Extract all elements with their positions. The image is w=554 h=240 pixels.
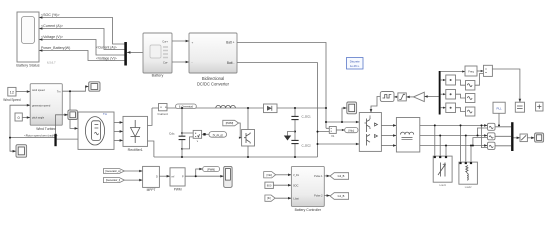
freq measurement block	[465, 66, 477, 76]
capacitor Cdc	[181, 108, 183, 157]
ground midpoint	[288, 132, 296, 136]
svg-text:Tm: Tm	[103, 112, 108, 116]
wire PWM generator to inverter gate	[371, 97, 380, 113]
goto tag I_Generator	[176, 104, 197, 109]
svg-text:<Current (A)>: <Current (A)>	[41, 24, 63, 28]
wire V2 to goto tag	[202, 133, 209, 135]
diode D1 on rail	[264, 104, 278, 113]
goto tag G2_B	[330, 173, 349, 180]
subsystem Wind Turbine	[30, 84, 62, 126]
PWM generator block	[380, 92, 394, 102]
scope three-phase	[535, 133, 544, 142]
display block	[515, 102, 524, 112]
wire V1 to goto tag Vdc	[336, 129, 345, 131]
svg-text:Pulse 1: Pulse 1	[314, 175, 323, 178]
svg-text:Cdc: Cdc	[169, 132, 175, 136]
svg-text:Battery: Battery	[152, 74, 164, 78]
svg-text:[Generator_I]: [Generator_I]	[106, 179, 120, 182]
wire machine phase C to rectifier	[114, 139, 123, 141]
junction dots top rail	[325, 107, 327, 109]
wire controller pulse2 to goto	[324, 195, 330, 197]
goto tag PWM	[203, 166, 220, 171]
wire bar1 stub row3	[441, 107, 446, 109]
svg-text:Wind Turbine: Wind Turbine	[36, 127, 56, 131]
IGBT switch block	[242, 130, 255, 147]
wire bar2 to rate block	[514, 137, 521, 139]
wire top DC rail	[152, 107, 326, 109]
svg-text:[Generator_w]: [Generator_w]	[105, 170, 120, 173]
wire rotor speed to scope	[10, 138, 16, 152]
svg-text:<Rotor speed wm (rad/s)>: <Rotor speed wm (rad/s)>	[24, 133, 58, 137]
svg-text:I_bat: I_bat	[293, 197, 299, 200]
wire IGBT bottom riser	[247, 146, 249, 157]
measurement block Vab	[488, 123, 496, 130]
MPPT block	[143, 166, 160, 187]
svg-text:800: 800	[267, 184, 272, 188]
from tag Ib	[265, 195, 275, 201]
PLL block	[493, 102, 505, 113]
svg-text:Current: Current	[158, 112, 168, 116]
svg-text:Battery Controller: Battery Controller	[295, 208, 322, 212]
wire row2 to RMS2	[456, 94, 466, 98]
wire inverter phase B	[381, 135, 396, 137]
wire row3 to RMS3	[456, 108, 466, 112]
wire bar1 stub row2	[441, 93, 446, 95]
svg-text:Discrete: Discrete	[350, 60, 360, 64]
svg-text:PLL: PLL	[497, 106, 503, 110]
wire phase line C	[420, 145, 488, 147]
svg-text:SOC: SOC	[293, 184, 299, 187]
wire to controller input2	[273, 184, 291, 186]
battery block	[143, 33, 172, 73]
constant Wind Speed 12	[8, 87, 16, 96]
svg-text:C_DC1: C_DC1	[302, 114, 312, 118]
wire Voltage from bus selector to Battery Status	[39, 40, 125, 56]
wire DC minus bus to inverter	[318, 143, 360, 145]
svg-text:Rectifier1: Rectifier1	[128, 148, 143, 152]
bus bar output measurements	[511, 122, 513, 151]
bus bar measurement mux	[439, 71, 441, 115]
wire machine phase A to rectifier	[114, 121, 123, 123]
rectifier block	[123, 116, 148, 146]
svg-text:-: -	[192, 60, 193, 64]
wire PWM to scope and goto	[185, 175, 224, 177]
svg-text:[Ib]: [Ib]	[267, 197, 271, 200]
svg-text:6,5,6,7: 6,5,6,7	[47, 61, 56, 65]
gain block flipped	[414, 92, 425, 101]
scope Battery Status block	[17, 12, 39, 62]
svg-text:Wind Speed: Wind Speed	[3, 98, 21, 102]
svg-text:[PWM]: [PWM]	[207, 168, 215, 171]
wire controller pulse1 to goto	[324, 175, 330, 177]
RMS block 2	[466, 94, 475, 103]
capacitor C_DC2	[291, 140, 298, 143]
svg-text:<Current (A)>: <Current (A)>	[96, 45, 117, 49]
wire DC plus bus to inverter	[326, 121, 359, 123]
svg-text:generator speed: generator speed	[32, 104, 51, 107]
wire battery m to bus selector	[127, 51, 143, 53]
svg-text:Batt +: Batt +	[226, 41, 235, 45]
wire Vab second input	[478, 128, 488, 136]
svg-text:DC/DC Converter: DC/DC Converter	[197, 82, 230, 87]
wire to controller input3	[275, 197, 291, 199]
wire machine phase B to rectifier	[114, 130, 123, 132]
wire wind speed to turbine	[16, 91, 30, 93]
svg-text:12: 12	[10, 90, 15, 95]
svg-text:Freq: Freq	[468, 70, 474, 74]
wire battery minus to converter	[172, 61, 189, 63]
svg-text:[PWM]: [PWM]	[226, 122, 234, 125]
current measurement block on DC rail	[159, 104, 168, 111]
wire bottom DC rail	[154, 156, 318, 158]
svg-text:wind speed: wind speed	[32, 89, 45, 92]
svg-text:D: D	[156, 175, 158, 178]
wire tag to MPPT input1	[124, 170, 142, 172]
wire gate to IGBT	[239, 123, 242, 138]
inductor L boost	[216, 105, 236, 108]
constant pitch angle 0	[15, 113, 22, 121]
svg-text:[Vdc]: [Vdc]	[348, 130, 354, 133]
wire Vca second input	[482, 125, 488, 147]
wire bar1 to freq block	[441, 71, 465, 73]
from tag Generator_I	[103, 178, 124, 183]
wire to scope3ph	[527, 137, 534, 139]
svg-text:Load2: Load2	[465, 186, 472, 189]
wire bar1 stub row1	[441, 79, 446, 81]
wire rotor speed feedback	[10, 105, 55, 137]
svg-text:Power_Battery(W): Power_Battery(W)	[41, 46, 70, 50]
measurement block Vbc	[488, 133, 496, 140]
wire tag to MPPT input2	[124, 179, 142, 181]
scope Vdc	[347, 102, 357, 114]
voltage measurement V1 DC bus	[318, 128, 330, 131]
wire battery plus to converter	[172, 40, 189, 42]
svg-text:Tm: Tm	[57, 91, 61, 94]
wire Current from bus selector to Battery Status	[39, 29, 125, 50]
scope wind speed bottom left	[16, 145, 27, 158]
svg-text:G2_B: G2_B	[338, 174, 345, 178]
wire Vbc second input	[473, 138, 488, 146]
load2 series RLC load	[459, 162, 478, 184]
wire scope Vdc riser	[342, 108, 347, 122]
from tag Vdc controller	[264, 172, 276, 178]
wire gain to saturation	[406, 96, 413, 98]
wire rectifier plus to DC rail	[148, 108, 153, 125]
voltage measurement V2 across Cdc	[182, 133, 193, 149]
wire row1 to RMS1	[456, 80, 466, 85]
wire drops to load1	[435, 125, 446, 156]
svg-text:<Voltage (V)>: <Voltage (V)>	[96, 56, 117, 60]
machine PMSG block	[78, 112, 114, 149]
svg-text:C_DC2: C_DC2	[302, 144, 312, 148]
svg-text:[V_dc_g]: [V_dc_g]	[213, 134, 223, 137]
wire freq to PQ block	[477, 70, 484, 72]
terminator block far right	[536, 102, 543, 111]
svg-text:Load1: Load1	[439, 184, 446, 187]
svg-text:Cur+: Cur+	[162, 39, 168, 43]
wire inverter phase A	[381, 124, 396, 126]
svg-text:1e-06 s.: 1e-06 s.	[350, 64, 360, 68]
PQ measurement block	[484, 65, 493, 76]
capacitor C_DC1	[294, 108, 296, 157]
wire inverter phase C	[381, 145, 396, 147]
RMS block 1	[466, 81, 475, 91]
LC filter block	[396, 118, 419, 153]
PWM block	[170, 168, 185, 186]
bus selector machine measurement bar	[54, 134, 56, 146]
svg-text:<SOC (%)>: <SOC (%)>	[41, 13, 60, 17]
svg-text:PWM: PWM	[174, 188, 182, 192]
wire to controller input1	[276, 174, 292, 176]
svg-text:[Vdc]: [Vdc]	[267, 174, 273, 177]
wire saturation to PWM generator	[394, 96, 398, 98]
inverter universal bridge	[359, 113, 381, 152]
wire PQ to display	[492, 69, 520, 102]
subsystem Battery Controller	[291, 166, 324, 206]
scope generator speed	[68, 110, 78, 119]
wire pitch angle to turbine	[22, 117, 30, 119]
wire PLL riser	[498, 113, 500, 125]
scope duty cycle	[224, 166, 232, 187]
goto tag V_dc_gen	[209, 132, 227, 138]
wire converter Batt- down right DC bus	[237, 63, 318, 157]
wire Power_Battery from bus selector to Battery Status	[39, 51, 125, 61]
wire machine m to bus selector	[57, 138, 78, 140]
wire Tm to machine and scope	[62, 87, 88, 92]
svg-text:pitch angle: pitch angle	[32, 117, 45, 120]
measurement block Vca	[488, 142, 496, 149]
wire bar1 to gain	[424, 96, 439, 98]
gain block row2	[446, 90, 456, 100]
powergui block	[347, 58, 364, 70]
gain block row1	[446, 75, 456, 85]
svg-text:Bidirectional: Bidirectional	[202, 76, 224, 81]
wire drops to load2	[461, 125, 472, 162]
wires measurements to output bus	[495, 127, 511, 146]
from tag Generator_w	[103, 169, 124, 174]
goto tag Vdc	[345, 128, 358, 133]
subsystem Bidirectional DC/DC Converter	[189, 33, 237, 73]
svg-text:<Voltage (V)>: <Voltage (V)>	[41, 35, 63, 39]
wire RMS1 riser to PQ	[475, 74, 484, 86]
svg-text:V_Dc: V_Dc	[293, 174, 300, 177]
wire MPPT to PWM	[159, 175, 170, 177]
rate transition block	[520, 134, 527, 142]
saturation block	[398, 93, 406, 101]
RMS block 3	[466, 107, 475, 116]
wire rectifier minus to bottom rail	[148, 141, 154, 157]
scope Tm top	[89, 82, 100, 91]
wire IGBT top riser	[247, 108, 249, 130]
svg-text:ref: ref	[172, 175, 175, 178]
wire converter Batt+ down right DC bus	[237, 43, 326, 129]
svg-text:V1: V1	[331, 134, 335, 138]
wire bus selector to scope2	[56, 115, 68, 134]
svg-text:+: +	[192, 41, 194, 45]
wire SOC from bus selector to Battery Status	[39, 18, 125, 45]
gain block row3	[446, 103, 456, 113]
wire phase line A	[420, 124, 488, 126]
svg-text:Battery Status: Battery Status	[16, 64, 39, 68]
load1 three-phase dynamic load	[433, 156, 452, 182]
bus selector bar (battery measurements)	[124, 42, 127, 66]
goto tag G1_B	[330, 193, 349, 200]
svg-text:MPPT: MPPT	[147, 188, 156, 192]
svg-text:Batt -: Batt -	[227, 61, 235, 65]
svg-text:Cur-: Cur-	[163, 60, 168, 64]
constant 800	[265, 182, 274, 188]
svg-text:G1_B: G1_B	[338, 194, 345, 198]
from tag PWM gate	[223, 120, 239, 126]
wire phase line B	[420, 135, 488, 137]
svg-text:Pulse 2: Pulse 2	[314, 195, 323, 198]
